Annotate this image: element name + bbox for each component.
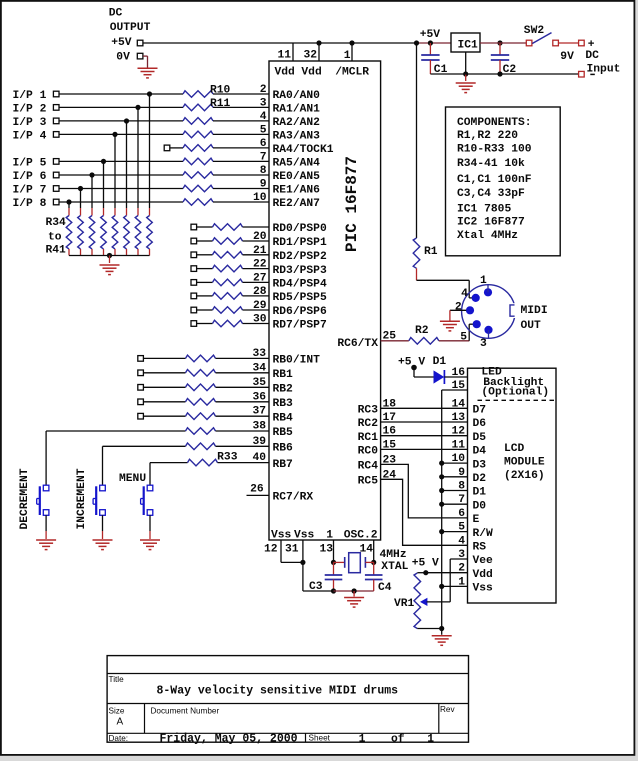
svg-text:C4: C4 (378, 582, 392, 594)
svg-text:Document Number: Document Number (151, 707, 220, 716)
svg-text:I/P 2: I/P 2 (13, 103, 47, 115)
svg-text:I/P 8: I/P 8 (13, 198, 47, 210)
svg-text:4MHz: 4MHz (380, 549, 407, 561)
svg-text:MODULE: MODULE (504, 456, 545, 468)
svg-text:D7: D7 (473, 405, 487, 417)
svg-text:RB7: RB7 (273, 459, 294, 471)
svg-text:11: 11 (277, 50, 291, 62)
svg-text:DECREMENT: DECREMENT (19, 468, 31, 529)
svg-text:RA2/AN2: RA2/AN2 (273, 117, 321, 129)
svg-text:30: 30 (253, 314, 267, 326)
svg-text:28: 28 (253, 286, 267, 298)
svg-text:22: 22 (253, 259, 267, 271)
svg-text:D2: D2 (473, 473, 487, 485)
svg-text:R10: R10 (210, 85, 231, 97)
svg-text:7: 7 (260, 151, 267, 163)
svg-text:RA4/TOCK1: RA4/TOCK1 (273, 144, 334, 156)
svg-text:C3,C4 33pF: C3,C4 33pF (457, 188, 525, 200)
svg-text:PIC 16F877: PIC 16F877 (343, 156, 361, 252)
svg-text:RS: RS (473, 542, 487, 554)
svg-text:XTAL: XTAL (381, 561, 408, 573)
svg-text:5: 5 (260, 124, 267, 136)
svg-text:RC4: RC4 (358, 461, 379, 473)
svg-text:MENU: MENU (119, 473, 146, 485)
svg-text:RC5: RC5 (358, 476, 379, 488)
svg-text:38: 38 (252, 421, 266, 433)
svg-text:Vss: Vss (294, 530, 315, 542)
svg-text:R34-41 10k: R34-41 10k (457, 158, 525, 170)
svg-text:10: 10 (253, 192, 267, 204)
svg-text:I/P 3: I/P 3 (13, 117, 47, 129)
svg-text:LCD: LCD (504, 443, 525, 455)
svg-text:to: to (48, 232, 62, 244)
svg-text:IC1: IC1 (458, 40, 479, 52)
svg-text:(Optional): (Optional) (481, 386, 549, 398)
svg-text:RD2/PSP2: RD2/PSP2 (273, 251, 327, 263)
svg-text:Input: Input (587, 63, 621, 75)
svg-text:Vdd: Vdd (275, 67, 295, 79)
svg-text:RC7/RX: RC7/RX (273, 492, 314, 504)
svg-text:33: 33 (252, 348, 266, 360)
svg-text:DC: DC (585, 50, 599, 62)
svg-text:VR1: VR1 (394, 598, 415, 610)
svg-text:R10-R33 100: R10-R33 100 (457, 144, 532, 156)
svg-text:R11: R11 (210, 98, 231, 110)
svg-text:I/P 5: I/P 5 (13, 157, 47, 169)
svg-text:2: 2 (260, 84, 267, 96)
svg-text:32: 32 (303, 50, 317, 62)
svg-text:OUTPUT: OUTPUT (110, 22, 151, 34)
svg-text:4: 4 (461, 288, 468, 300)
svg-text:R2: R2 (415, 325, 429, 337)
svg-text:I/P 6: I/P 6 (13, 171, 47, 183)
svg-text:9: 9 (260, 179, 267, 191)
svg-text:E: E (473, 514, 480, 526)
svg-text:RB1: RB1 (273, 369, 294, 381)
svg-text:31: 31 (285, 544, 299, 556)
svg-text:D1: D1 (473, 487, 487, 499)
svg-text:RD6/PSP6: RD6/PSP6 (273, 306, 327, 318)
svg-text:RE0/AN5: RE0/AN5 (273, 171, 321, 183)
svg-text:Date:: Date: (109, 734, 129, 743)
svg-text:3: 3 (260, 97, 267, 109)
svg-text:26: 26 (250, 484, 264, 496)
svg-text:40: 40 (252, 452, 266, 464)
svg-text:D1: D1 (433, 356, 447, 368)
svg-text:RD4/PSP4: RD4/PSP4 (273, 279, 327, 291)
svg-text:I/P 1: I/P 1 (13, 90, 47, 102)
svg-text:COMPONENTS:: COMPONENTS: (457, 117, 532, 129)
svg-text:IC1 7805: IC1 7805 (457, 203, 511, 215)
svg-text:OUT: OUT (521, 320, 542, 332)
svg-text:39: 39 (252, 436, 266, 448)
svg-text:Xtal 4MHz: Xtal 4MHz (457, 230, 518, 242)
svg-text:RB2: RB2 (273, 384, 294, 396)
svg-text:RB3: RB3 (273, 398, 294, 410)
svg-text:RE2/AN7: RE2/AN7 (273, 198, 321, 210)
svg-text:I/P 7: I/P 7 (13, 184, 47, 196)
svg-text:1: 1 (480, 275, 487, 287)
svg-text:RD5/PSP5: RD5/PSP5 (273, 292, 327, 304)
svg-text:RD0/PSP0: RD0/PSP0 (273, 223, 327, 235)
svg-text:Rev: Rev (440, 705, 455, 714)
svg-text:Friday, May 05, 2000: Friday, May 05, 2000 (160, 732, 298, 745)
svg-text:D4: D4 (473, 446, 487, 458)
svg-text:D6: D6 (473, 418, 487, 430)
svg-text:RB0/INT: RB0/INT (273, 355, 321, 367)
svg-text:2: 2 (455, 301, 462, 313)
svg-text:/MCLR: /MCLR (335, 67, 369, 79)
svg-text:RC3: RC3 (358, 405, 379, 417)
svg-text:+5V: +5V (420, 29, 441, 41)
svg-text:IC2 16F877: IC2 16F877 (457, 217, 525, 229)
svg-text:SW2: SW2 (524, 25, 545, 37)
svg-text:5: 5 (460, 331, 467, 343)
svg-text:D0: D0 (473, 500, 487, 512)
svg-text:R33: R33 (217, 452, 238, 464)
svg-text:OSC.2: OSC.2 (344, 530, 378, 542)
svg-text:9V: 9V (560, 51, 574, 63)
svg-text:Title: Title (109, 675, 125, 684)
svg-text:+5 V: +5 V (412, 558, 439, 570)
svg-text:RC2: RC2 (358, 418, 379, 430)
svg-text:(2X16): (2X16) (504, 470, 545, 482)
svg-text:A: A (117, 717, 124, 728)
svg-text:I/P 4: I/P 4 (13, 130, 47, 142)
svg-text:29: 29 (253, 300, 267, 312)
svg-text:37: 37 (252, 406, 266, 418)
svg-text:RD3/PSP3: RD3/PSP3 (273, 265, 327, 277)
svg-text:1: 1 (344, 50, 351, 62)
svg-text:MIDI: MIDI (521, 305, 548, 317)
svg-text:R34: R34 (46, 217, 67, 229)
svg-text:C3: C3 (309, 581, 323, 593)
svg-text:Vss: Vss (473, 583, 494, 595)
svg-text:Sheet: Sheet (309, 734, 331, 743)
svg-text:1: 1 (427, 733, 434, 745)
svg-text:20: 20 (253, 231, 267, 243)
svg-text:Vss: Vss (271, 530, 292, 542)
svg-text:D5: D5 (473, 432, 487, 444)
svg-text:RD7/PSP7: RD7/PSP7 (273, 320, 327, 332)
svg-text:6: 6 (260, 138, 267, 150)
svg-text:35: 35 (252, 377, 266, 389)
svg-text:16: 16 (451, 367, 465, 379)
svg-text:D3: D3 (473, 459, 487, 471)
svg-text:4: 4 (260, 111, 267, 123)
svg-text:RD1/PSP1: RD1/PSP1 (273, 237, 327, 249)
svg-text:1: 1 (359, 733, 366, 745)
svg-text:+5V: +5V (111, 37, 132, 49)
svg-text:8-Way velocity sensitive MIDI: 8-Way velocity sensitive MIDI drums (157, 685, 399, 698)
svg-text:RB4: RB4 (273, 412, 294, 424)
svg-text:1: 1 (326, 530, 333, 542)
svg-text:RC6/TX: RC6/TX (337, 338, 378, 350)
svg-text:RC0: RC0 (358, 446, 379, 458)
svg-text:RA3/AN3: RA3/AN3 (273, 131, 321, 143)
svg-text:3: 3 (480, 338, 487, 350)
svg-text:0V: 0V (116, 52, 130, 64)
svg-text:RE1/AN6: RE1/AN6 (273, 185, 321, 197)
svg-text:Vee: Vee (473, 555, 494, 567)
svg-text:RA1/AN1: RA1/AN1 (273, 104, 321, 116)
svg-text:21: 21 (253, 245, 267, 257)
svg-text:RC1: RC1 (358, 432, 379, 444)
svg-text:R1: R1 (424, 246, 438, 258)
svg-text:RA0/AN0: RA0/AN0 (273, 90, 321, 102)
svg-text:INCREMENT: INCREMENT (76, 468, 88, 529)
svg-text:14: 14 (359, 544, 373, 556)
svg-text:R41: R41 (46, 245, 67, 257)
svg-text:R1,R2 220: R1,R2 220 (457, 130, 518, 142)
svg-text:8: 8 (260, 165, 267, 177)
svg-text:36: 36 (252, 391, 266, 403)
svg-text:34: 34 (252, 362, 266, 374)
svg-text:Size: Size (109, 707, 125, 716)
svg-text:RA5/AN4: RA5/AN4 (273, 158, 321, 170)
svg-text:Vdd: Vdd (301, 67, 321, 79)
svg-text:R/W: R/W (473, 528, 494, 540)
svg-text:C1,C1 100nF: C1,C1 100nF (457, 174, 532, 186)
svg-text:12: 12 (264, 544, 278, 556)
svg-text:27: 27 (253, 272, 267, 284)
svg-text:Vdd: Vdd (473, 569, 493, 581)
svg-text:RB5: RB5 (273, 427, 294, 439)
svg-text:of: of (391, 733, 405, 745)
svg-text:RB6: RB6 (273, 443, 294, 455)
svg-text:13: 13 (319, 544, 333, 556)
svg-text:DC: DC (109, 7, 123, 19)
